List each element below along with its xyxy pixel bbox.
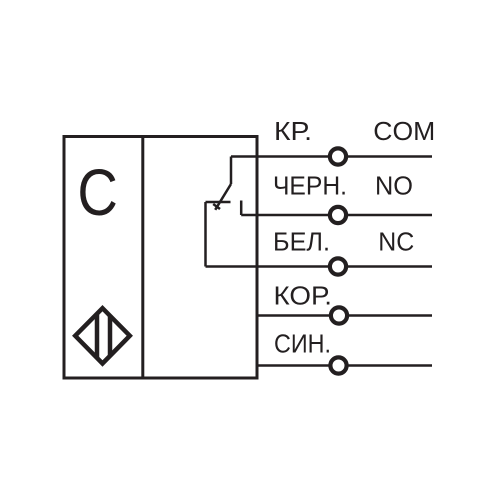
diamond inner line right xyxy=(108,316,113,357)
wire ЧЕРН/NO xyxy=(241,214,432,217)
wire КОР xyxy=(257,314,432,317)
svg-text:ЧЕРН.: ЧЕРН. xyxy=(273,171,347,201)
terminal circle 3 xyxy=(330,258,346,274)
switch S1: lever tick xyxy=(213,204,220,209)
switch S1: COM drop wire xyxy=(230,157,233,185)
terminal circle 4 xyxy=(331,307,347,323)
switch S1: NC contact bar xyxy=(206,201,231,204)
optical sensor symbol (diamond) xyxy=(75,308,130,363)
switch S1: NC branch wire down to БЕЛ xyxy=(204,202,207,267)
terminal circle 2 xyxy=(330,207,346,223)
wire СИН xyxy=(257,364,432,367)
svg-text:БЕЛ.: БЕЛ. xyxy=(273,226,330,256)
switch S1: NO terminal stub xyxy=(240,201,243,216)
terminal circle 1 xyxy=(330,148,346,164)
svg-text:КОР.: КОР. xyxy=(274,281,333,311)
svg-text:COM: COM xyxy=(373,116,435,146)
switch S1: lever xyxy=(215,184,231,210)
svg-text:СИН.: СИН. xyxy=(274,329,331,359)
svg-text:C: C xyxy=(77,155,118,229)
terminal circle 5 xyxy=(330,357,346,373)
svg-text:NO: NO xyxy=(375,171,413,201)
sensor body divider xyxy=(141,137,144,379)
sensor body outline U1 xyxy=(64,137,257,379)
wire КР/COM xyxy=(231,155,432,158)
diamond inner line left xyxy=(95,314,100,358)
svg-text:КР.: КР. xyxy=(274,116,312,146)
wire БЕЛ/NC xyxy=(206,265,433,268)
svg-text:NC: NC xyxy=(378,226,414,256)
